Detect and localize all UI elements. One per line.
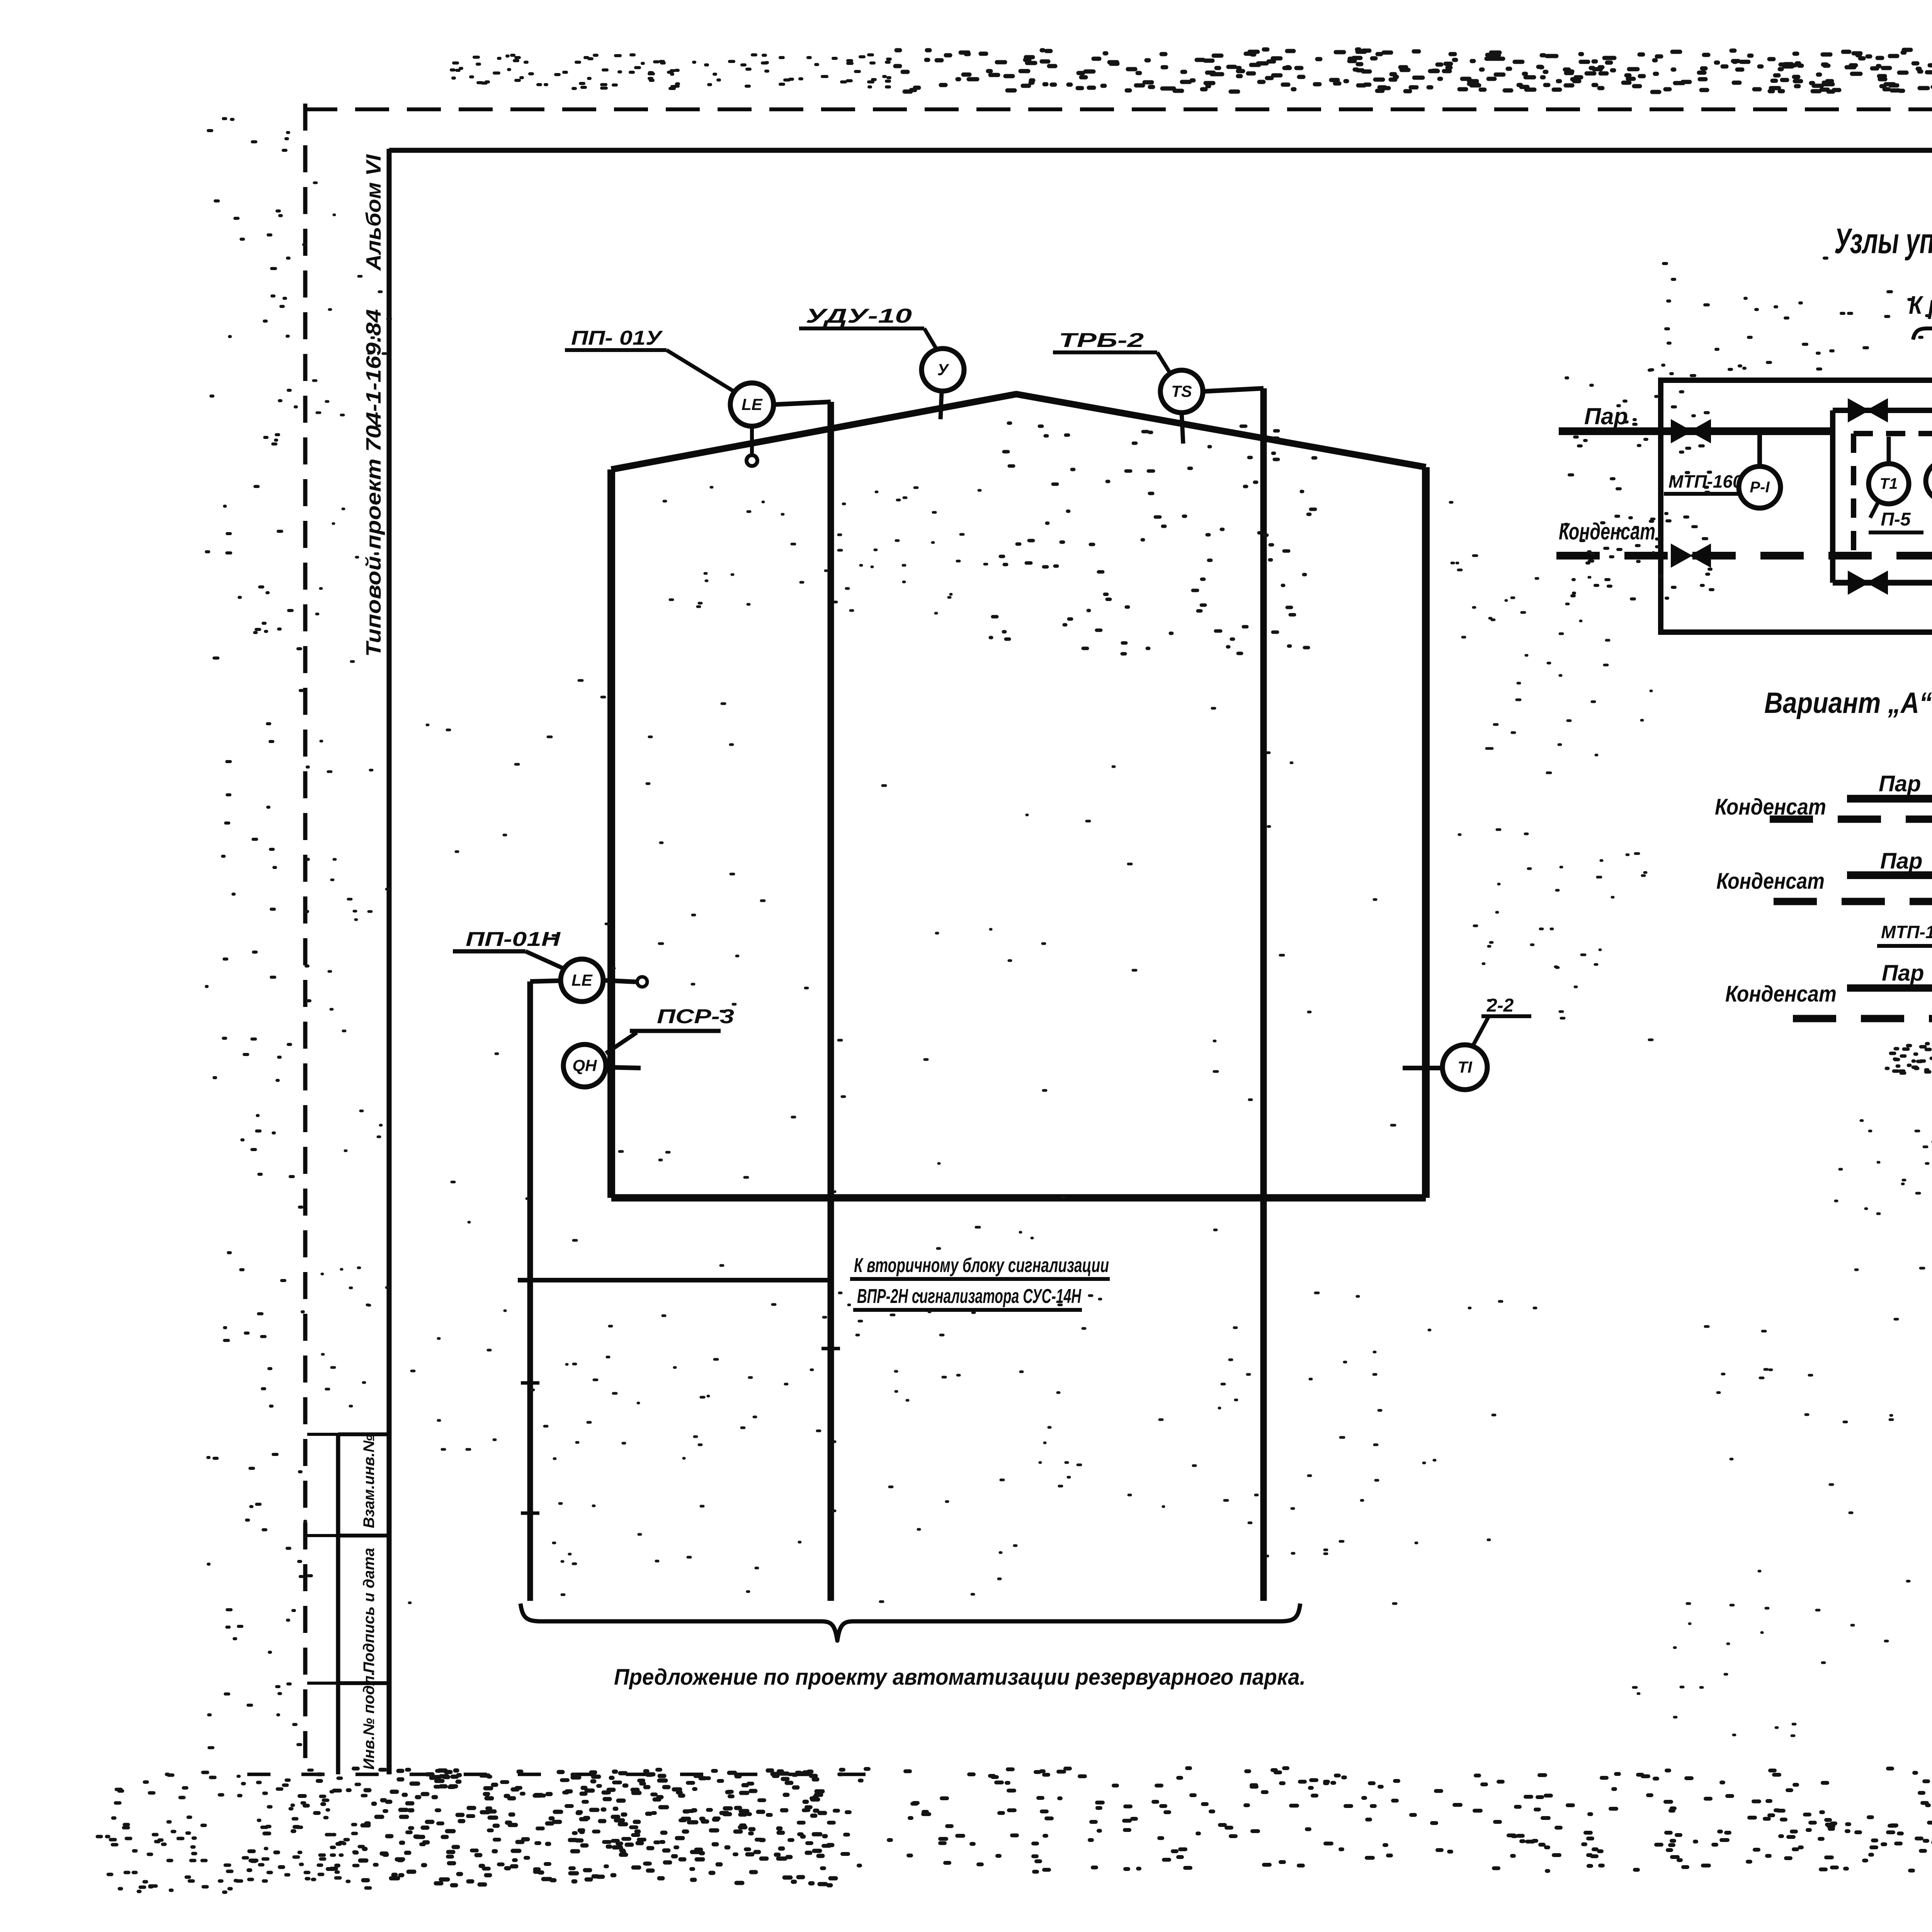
svg-text:Вариант „А“: Вариант „А“	[1764, 687, 1932, 719]
svg-text:Р-I: Р-I	[1750, 479, 1770, 496]
svg-text:Т1: Т1	[1880, 475, 1898, 492]
svg-text:Пар: Пар	[1882, 961, 1924, 986]
svg-text:ПСР-3: ПСР-3	[657, 1005, 734, 1028]
svg-text:Пар: Пар	[1880, 849, 1922, 874]
svg-text:Инв.№ подл.: Инв.№ подл.	[361, 1671, 378, 1770]
svg-text:ВПР-2Н сигнализатора СУС-14Н: ВПР-2Н сигнализатора СУС-14Н	[857, 1285, 1082, 1308]
svg-text:Взам.инв.№: Взам.инв.№	[361, 1435, 378, 1528]
svg-text:УДУ-10: УДУ-10	[806, 305, 912, 327]
svg-text:ТI: ТI	[1458, 1058, 1473, 1076]
svg-text:Конденсат: Конденсат	[1725, 981, 1837, 1007]
svg-text:Конденсат: Конденсат	[1559, 519, 1655, 544]
svg-text:У: У	[937, 361, 950, 379]
svg-text:Альбом VI: Альбом VI	[362, 154, 385, 271]
svg-text:LЕ: LЕ	[571, 971, 593, 989]
svg-text:QН: QН	[573, 1056, 598, 1075]
svg-text:МТП-160: МТП-160	[1881, 922, 1932, 942]
svg-text:Пар: Пар	[1584, 403, 1628, 429]
svg-text:Подпись и дата: Подпись и дата	[361, 1548, 378, 1673]
svg-text:ПП-01Н: ПП-01Н	[466, 928, 561, 951]
svg-text:Типовой проект 704-1-169.84: Типовой проект 704-1-169.84	[362, 309, 385, 657]
svg-text:2-2: 2-2	[1486, 995, 1514, 1016]
svg-text:ПП- 01У: ПП- 01У	[571, 327, 663, 349]
svg-text:Конденсат: Конденсат	[1716, 869, 1825, 894]
svg-text:Пар: Пар	[1879, 771, 1921, 796]
svg-text:Предложение по проекту автом: Предложение по проекту автоматизации рез…	[614, 1665, 1306, 1690]
svg-text:П-5: П-5	[1881, 509, 1911, 530]
svg-text:К вторичному блоку сигнализац: К вторичному блоку сигнализации	[854, 1254, 1109, 1277]
svg-text:LE: LE	[742, 395, 763, 413]
svg-text:ТРБ-2: ТРБ-2	[1059, 329, 1144, 352]
svg-text:ТS: ТS	[1171, 382, 1192, 400]
svg-text:Узлы управления системой по: Узлы управления системой подогрева	[1834, 221, 1932, 261]
